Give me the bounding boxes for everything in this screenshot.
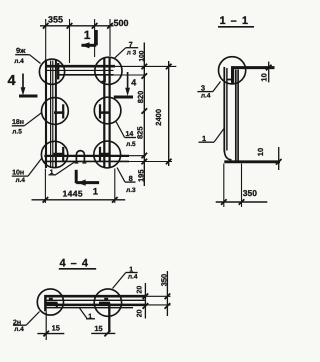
svg-text:л 3: л 3: [127, 49, 137, 56]
svg-text:14: 14: [126, 131, 134, 138]
svg-text:1: 1: [93, 187, 99, 198]
svg-text:195: 195: [137, 169, 146, 182]
svg-text:7: 7: [129, 40, 133, 49]
svg-text:15: 15: [94, 324, 102, 333]
svg-text:2400: 2400: [154, 109, 163, 126]
svg-text:18н: 18н: [12, 119, 24, 126]
svg-text:л.3: л.3: [126, 187, 136, 194]
svg-text:1: 1: [84, 28, 91, 42]
svg-text:9ж: 9ж: [16, 46, 26, 55]
svg-text:л.4: л.4: [201, 93, 211, 100]
svg-text:10: 10: [259, 73, 268, 81]
svg-text:л.4: л.4: [14, 58, 24, 65]
svg-text:3: 3: [201, 83, 205, 92]
svg-text:л.4: л.4: [128, 273, 138, 280]
svg-text:1: 1: [88, 313, 92, 320]
svg-text:1445: 1445: [63, 189, 84, 199]
svg-text:л.4: л.4: [14, 326, 24, 333]
svg-text:10н: 10н: [12, 169, 24, 176]
svg-text:1: 1: [202, 134, 206, 143]
svg-text:л.4: л.4: [16, 177, 26, 184]
svg-text:8: 8: [129, 174, 133, 183]
svg-text:350: 350: [160, 274, 169, 287]
svg-text:л.5: л.5: [12, 128, 22, 135]
svg-text:20: 20: [137, 286, 144, 294]
svg-text:10: 10: [256, 148, 265, 156]
svg-text:1: 1: [50, 169, 54, 176]
svg-text:100: 100: [138, 50, 145, 61]
svg-text:350: 350: [243, 188, 257, 198]
svg-text:4: 4: [8, 73, 16, 89]
svg-text:1 – 1: 1 – 1: [220, 15, 249, 27]
svg-text:4 – 4: 4 – 4: [60, 258, 89, 270]
svg-text:820: 820: [136, 91, 145, 104]
svg-text:4: 4: [131, 78, 136, 88]
svg-text:500: 500: [114, 18, 129, 28]
svg-text:20: 20: [137, 309, 144, 317]
svg-text:355: 355: [48, 15, 63, 25]
svg-text:825: 825: [136, 126, 145, 139]
svg-text:15: 15: [52, 324, 60, 333]
svg-text:л.5: л.5: [126, 141, 136, 148]
